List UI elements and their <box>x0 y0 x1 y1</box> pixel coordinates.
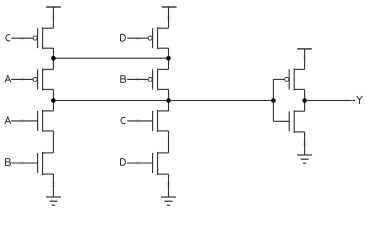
pmos D (middle pull-up, top) <box>148 27 168 49</box>
node junction dot (inverter input) <box>271 98 276 103</box>
node junction dot (middle branch on output net) <box>166 98 171 103</box>
label D (pmos D gate input) <box>121 34 126 41</box>
wire: nmos B source to ground <box>52 174 54 197</box>
wire: C input to pmos C gate <box>11 37 33 39</box>
label A (nmos A gate input) <box>5 117 11 124</box>
wire: A input to nmos A gate <box>11 120 37 122</box>
wire: output Y <box>305 100 356 102</box>
pmos C (left pull-up, top) <box>33 27 53 49</box>
ground (inverter) <box>297 155 312 163</box>
pmos A (left pull-up, bottom) <box>33 68 53 90</box>
nmos C (middle pull-down, top) <box>153 110 169 132</box>
nmos B (left pull-down, bottom) <box>38 152 54 175</box>
wire: nmos C source to nmos D drain <box>168 131 170 153</box>
label C (nmos C gate input) <box>121 117 125 123</box>
wire: nmos D source to ground <box>168 174 170 197</box>
label C (pmos C gate input) <box>6 35 10 41</box>
wire: D input to pmos D gate <box>127 37 148 39</box>
label A (pmos A gate input) <box>5 76 11 83</box>
wire: internal output net (AOI output to inverter input) <box>53 100 273 102</box>
node N1 junction dot (middle) <box>166 56 171 61</box>
wire: inverter pmos drain to output Y <box>304 89 306 111</box>
wire: nmos A source to nmos B drain <box>52 131 54 153</box>
wire: inverter nmos source to ground <box>304 132 306 155</box>
label Y (output) <box>357 96 362 104</box>
power VDD symbol (left pull-up branch) <box>46 7 61 28</box>
wire: net N1 (series midpoint, left to middle) <box>53 57 168 59</box>
wire: pmos C drain to node N1 <box>52 48 54 69</box>
node N1 junction dot (left) <box>51 56 56 61</box>
label D (nmos D gate input) <box>121 159 126 166</box>
nmos inverter pull-down <box>289 110 304 133</box>
node junction dot (left branch on output net) <box>51 98 56 103</box>
wire: B input to pmos B gate <box>127 78 148 80</box>
ground (left branch) <box>46 197 61 205</box>
wire: C input to nmos C gate <box>127 120 152 122</box>
wire: D input to nmos D gate <box>127 162 152 164</box>
wire: pmos B drain to output node <box>168 89 170 111</box>
power VDD symbol (inverter) <box>297 49 312 70</box>
ground (middle branch) <box>161 197 176 205</box>
wire: A input to pmos A gate <box>11 78 33 80</box>
label B (nmos B gate input) <box>6 159 11 166</box>
label B (pmos B gate input) <box>121 76 126 83</box>
wire: B input to nmos B gate <box>11 162 37 164</box>
nmos D (middle pull-down, bottom) <box>153 152 169 175</box>
wire: pmos D drain to node N1 <box>168 48 170 69</box>
wire: inverter input riser to gates <box>273 79 289 121</box>
pmos inverter pull-up <box>285 68 305 90</box>
power VDD symbol (middle pull-up branch) <box>162 7 177 28</box>
wire: pmos A drain to output node <box>52 89 54 111</box>
node junction dot (inverter output) <box>302 98 307 103</box>
pmos B (middle pull-up, bottom) <box>148 68 168 90</box>
nmos A (left pull-down, top) <box>38 110 54 132</box>
arc midpoint markers (faint crosses) <box>20 15 349 187</box>
